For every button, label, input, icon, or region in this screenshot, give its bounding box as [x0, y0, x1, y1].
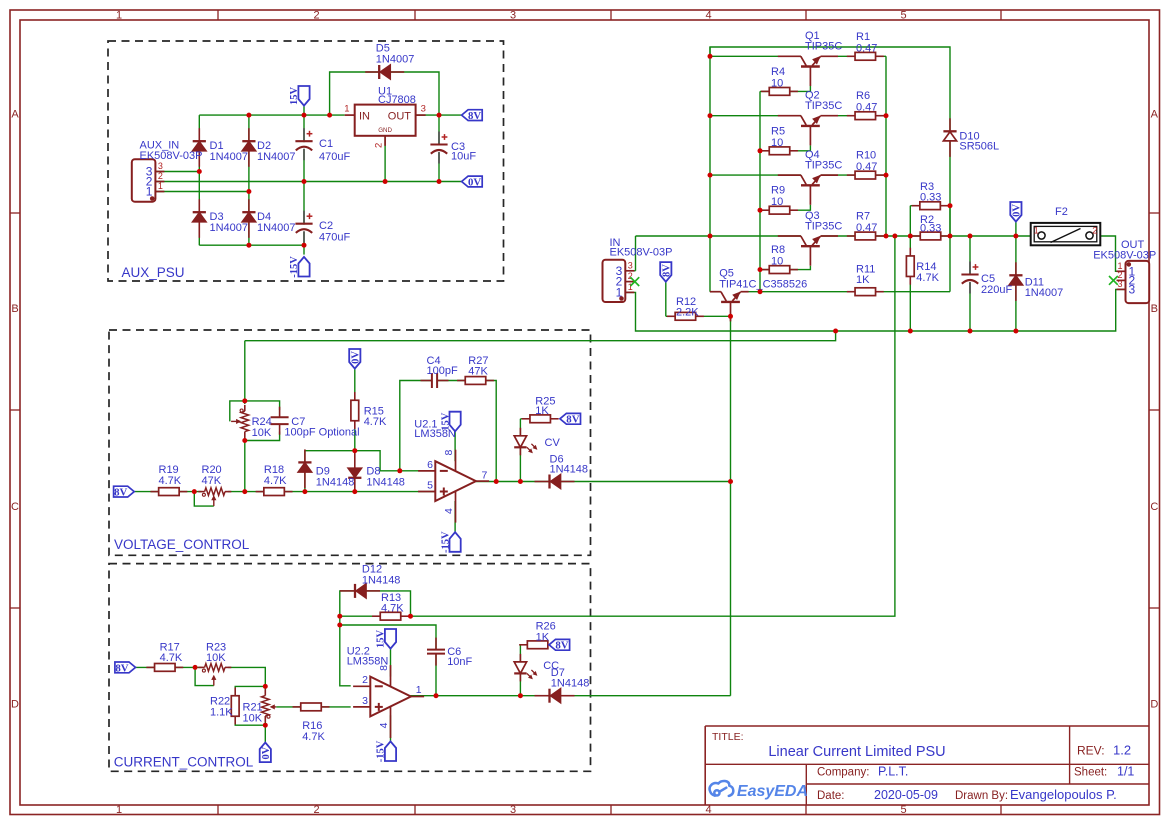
svg-text:1: 1 — [416, 684, 422, 696]
svg-text:8V: 8V — [555, 640, 568, 652]
svg-text:LM358N: LM358N — [414, 428, 456, 440]
svg-text:1N4007: 1N4007 — [210, 151, 249, 163]
svg-text:OUT: OUT — [388, 110, 412, 122]
svg-text:0.47: 0.47 — [856, 42, 877, 54]
svg-text:5: 5 — [900, 804, 906, 816]
svg-text:2: 2 — [313, 804, 319, 816]
svg-text:TIP41C_C358526: TIP41C_C358526 — [719, 278, 807, 290]
svg-text:B: B — [11, 303, 18, 315]
svg-text:TITLE:: TITLE: — [712, 731, 744, 743]
svg-text:7: 7 — [482, 470, 488, 482]
svg-text:Date:: Date: — [817, 790, 845, 802]
svg-text:470uF: 470uF — [319, 232, 350, 244]
svg-text:TIP35C: TIP35C — [805, 159, 842, 171]
svg-text:Company:: Company: — [817, 767, 869, 779]
svg-text:1.1K: 1.1K — [210, 706, 233, 718]
svg-text:1: 1 — [116, 9, 122, 21]
svg-text:100pF Optional: 100pF Optional — [284, 427, 359, 439]
svg-text:CV: CV — [545, 437, 561, 449]
svg-text:-15V: -15V — [440, 531, 451, 553]
svg-text:0.47: 0.47 — [856, 222, 877, 234]
svg-text:10: 10 — [771, 256, 783, 268]
svg-text:A: A — [11, 109, 19, 121]
svg-text:4.7K: 4.7K — [159, 475, 182, 487]
svg-text:4.7K: 4.7K — [302, 731, 325, 743]
svg-text:8V: 8V — [468, 110, 481, 122]
svg-text:10K: 10K — [252, 427, 272, 439]
svg-text:C: C — [1150, 501, 1158, 513]
svg-text:1: 1 — [1034, 226, 1039, 237]
svg-text:0.33: 0.33 — [920, 222, 941, 234]
svg-text:C1: C1 — [319, 138, 333, 150]
svg-text:1K: 1K — [856, 274, 870, 286]
svg-text:R1: R1 — [856, 31, 870, 43]
svg-text:0V: 0V — [468, 176, 481, 188]
svg-text:1: 1 — [344, 104, 349, 115]
svg-text:10uF: 10uF — [451, 150, 476, 162]
svg-text:P.L.T.: P.L.T. — [878, 765, 908, 779]
svg-text:1N4007: 1N4007 — [1025, 287, 1064, 299]
svg-text:SR506L: SR506L — [959, 141, 999, 153]
svg-text:R4: R4 — [771, 66, 785, 78]
svg-text:2: 2 — [362, 674, 368, 686]
svg-text:R6: R6 — [856, 90, 870, 102]
svg-text:Evangelopoulos P.: Evangelopoulos P. — [1010, 787, 1117, 802]
svg-text:A: A — [1151, 109, 1159, 121]
svg-text:EK508V-03P: EK508V-03P — [1093, 249, 1156, 261]
svg-text:EK508V-03P: EK508V-03P — [610, 247, 673, 259]
svg-text:EK508V-03P: EK508V-03P — [140, 150, 203, 162]
svg-text:D: D — [1150, 699, 1158, 711]
svg-text:1K: 1K — [536, 631, 550, 643]
svg-text:-15V: -15V — [376, 740, 387, 762]
svg-text:3: 3 — [628, 260, 633, 270]
svg-text:47K: 47K — [202, 475, 222, 487]
svg-text:0.47: 0.47 — [856, 161, 877, 173]
svg-text:1/1: 1/1 — [1117, 765, 1134, 779]
svg-text:R8: R8 — [771, 244, 785, 256]
svg-text:1N4148: 1N4148 — [362, 574, 401, 586]
svg-text:Sheet:: Sheet: — [1074, 767, 1107, 779]
svg-text:0.33: 0.33 — [920, 191, 941, 203]
svg-text:4: 4 — [443, 508, 455, 514]
svg-text:0V: 0V — [261, 746, 272, 759]
svg-text:8: 8 — [443, 450, 455, 456]
svg-text:IN: IN — [359, 110, 370, 122]
svg-text:10: 10 — [771, 137, 783, 149]
svg-text:Drawn By:: Drawn By: — [955, 790, 1008, 802]
svg-text:8V: 8V — [115, 662, 128, 674]
svg-text:3: 3 — [1129, 282, 1136, 296]
svg-text:R10: R10 — [856, 150, 876, 162]
svg-text:8V: 8V — [114, 487, 127, 499]
svg-text:1N4007: 1N4007 — [210, 222, 249, 234]
svg-text:C: C — [11, 501, 19, 513]
svg-text:TIP35C: TIP35C — [805, 220, 842, 232]
svg-text:2: 2 — [1092, 226, 1097, 237]
svg-text:1N4148: 1N4148 — [366, 476, 405, 488]
svg-text:3: 3 — [158, 161, 163, 171]
svg-text:15V: 15V — [289, 87, 300, 106]
svg-text:LM358N: LM358N — [347, 655, 389, 667]
svg-text:2: 2 — [158, 171, 163, 181]
svg-text:10: 10 — [771, 77, 783, 89]
svg-text:R5: R5 — [771, 125, 785, 137]
svg-text:4.7K: 4.7K — [916, 272, 939, 284]
svg-text:10K: 10K — [243, 713, 263, 725]
svg-text:EasyEDA: EasyEDA — [737, 783, 808, 800]
svg-text:470uF: 470uF — [319, 151, 350, 163]
svg-text:1K: 1K — [535, 405, 549, 417]
svg-text:F2: F2 — [1055, 206, 1068, 218]
svg-text:100pF: 100pF — [427, 365, 458, 377]
svg-text:TIP35C: TIP35C — [805, 41, 842, 53]
svg-text:4.7K: 4.7K — [160, 652, 183, 664]
svg-text:-15V: -15V — [289, 256, 300, 278]
svg-text:220uF: 220uF — [981, 284, 1012, 296]
svg-text:0V: 0V — [1012, 204, 1023, 217]
svg-text:10nF: 10nF — [447, 656, 472, 668]
svg-text:3: 3 — [510, 804, 516, 816]
svg-text:1N4007: 1N4007 — [257, 151, 296, 163]
svg-text:D: D — [11, 699, 19, 711]
svg-text:47K: 47K — [468, 365, 488, 377]
svg-text:4.7K: 4.7K — [264, 475, 287, 487]
svg-text:8V: 8V — [662, 264, 673, 277]
svg-text:5: 5 — [427, 480, 433, 492]
svg-text:1N4007: 1N4007 — [376, 54, 415, 66]
svg-text:1: 1 — [116, 804, 122, 816]
svg-text:1N4148: 1N4148 — [551, 677, 590, 689]
svg-text:CJ7808: CJ7808 — [378, 94, 416, 106]
svg-text:2.2K: 2.2K — [676, 306, 699, 318]
svg-text:1N4007: 1N4007 — [257, 222, 296, 234]
svg-text:4: 4 — [705, 804, 711, 816]
svg-text:1N4148: 1N4148 — [316, 476, 355, 488]
svg-text:B: B — [1151, 303, 1158, 315]
svg-text:6: 6 — [427, 459, 433, 471]
svg-text:2: 2 — [313, 9, 319, 21]
svg-text:AUX_PSU: AUX_PSU — [122, 265, 185, 280]
svg-text:R7: R7 — [856, 211, 870, 223]
svg-text:TIP35C: TIP35C — [805, 100, 842, 112]
svg-text:2020-05-09: 2020-05-09 — [874, 788, 938, 802]
svg-text:Linear Current Limited PSU: Linear Current Limited PSU — [768, 744, 945, 760]
svg-text:5: 5 — [900, 9, 906, 21]
svg-text:1N4148: 1N4148 — [550, 464, 589, 476]
svg-text:4: 4 — [378, 722, 390, 728]
svg-text:3: 3 — [421, 104, 426, 115]
svg-text:VOLTAGE_CONTROL: VOLTAGE_CONTROL — [114, 537, 250, 552]
svg-text:10: 10 — [771, 196, 783, 208]
svg-text:1.2: 1.2 — [1113, 743, 1131, 758]
svg-text:10K: 10K — [206, 652, 226, 664]
svg-text:R9: R9 — [771, 185, 785, 197]
svg-text:C2: C2 — [319, 220, 333, 232]
svg-text:2: 2 — [374, 143, 385, 148]
svg-text:8V: 8V — [566, 414, 579, 426]
svg-text:CURRENT_CONTROL: CURRENT_CONTROL — [114, 755, 254, 770]
svg-text:0V: 0V — [351, 351, 362, 364]
svg-text:1: 1 — [158, 181, 163, 191]
svg-text:3: 3 — [510, 9, 516, 21]
svg-text:3: 3 — [1117, 279, 1122, 289]
svg-text:3: 3 — [362, 695, 368, 707]
svg-text:4: 4 — [705, 9, 711, 21]
svg-text:4.7K: 4.7K — [364, 416, 387, 428]
svg-text:REV:: REV: — [1077, 744, 1105, 758]
svg-text:15V: 15V — [376, 630, 387, 649]
svg-text:0.47: 0.47 — [856, 102, 877, 114]
svg-text:GND: GND — [378, 127, 392, 134]
svg-text:4.7K: 4.7K — [381, 602, 404, 614]
